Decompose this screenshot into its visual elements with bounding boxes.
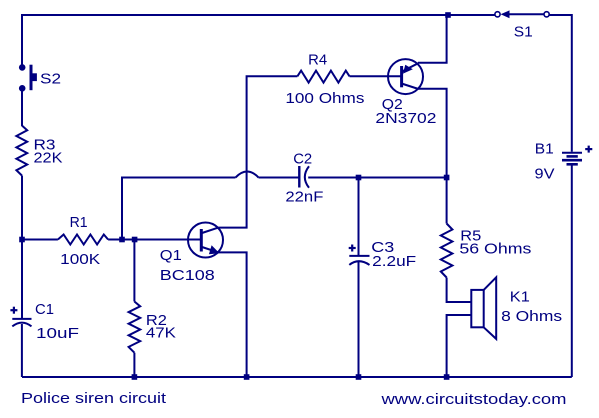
resistor R1 bbox=[22, 235, 122, 245]
wire battery to bottom rail bbox=[571, 165, 573, 377]
wire speaker bottom terminal to ground bbox=[447, 315, 472, 377]
wire S1 to battery bbox=[549, 15, 572, 152]
node C3 top junction bbox=[356, 175, 362, 181]
wire R5 to speaker top terminal bbox=[447, 278, 472, 303]
node R5 line junction bbox=[444, 175, 450, 181]
svg-text:K1: K1 bbox=[510, 289, 530, 306]
svg-text:Q1: Q1 bbox=[160, 247, 182, 264]
svg-text:22K: 22K bbox=[34, 149, 63, 166]
wire Q2 emitter to top rail bbox=[418, 15, 447, 63]
wire Q1 emitter to ground bbox=[218, 252, 246, 377]
node R1 right junction bbox=[119, 237, 125, 243]
transistor Q2 bbox=[388, 59, 423, 94]
speaker K1 bbox=[471, 277, 496, 339]
plus sign C1 bbox=[10, 307, 17, 314]
capacitor C2 bbox=[299, 166, 309, 188]
wire top rail bbox=[22, 15, 495, 65]
svg-text:100 Ohms: 100 Ohms bbox=[285, 90, 364, 107]
wire left rail mid bbox=[21, 176, 23, 319]
plus sign C3 bbox=[349, 245, 356, 252]
wire base of Q1 bbox=[122, 239, 201, 241]
svg-text:R4: R4 bbox=[308, 51, 327, 68]
switch S2 bbox=[20, 65, 37, 91]
switch S1 bbox=[495, 10, 549, 18]
svg-text:R1: R1 bbox=[70, 214, 88, 231]
wire Q2 collector to R5 bbox=[419, 89, 447, 224]
svg-text:22nF: 22nF bbox=[285, 189, 323, 206]
wire feedback to C2 bbox=[122, 172, 299, 240]
capacitor C3 bbox=[349, 178, 369, 378]
battery B1 bbox=[562, 153, 582, 165]
resistor R3 bbox=[16, 126, 27, 176]
wire bottom rail bbox=[22, 376, 572, 378]
wire R2 bottom bbox=[133, 353, 135, 377]
svg-text:100K: 100K bbox=[60, 251, 100, 268]
node R2 ground junction bbox=[132, 374, 138, 380]
resistor R4 bbox=[297, 71, 349, 83]
node C3 ground junction bbox=[356, 374, 362, 380]
svg-text:10uF: 10uF bbox=[36, 325, 79, 342]
wire Q1 collector to R4 bbox=[218, 76, 297, 227]
svg-text:9V: 9V bbox=[535, 166, 555, 183]
svg-text:www.circuitstoday.com: www.circuitstoday.com bbox=[380, 391, 566, 408]
node top junction bbox=[445, 12, 451, 18]
svg-text:C2: C2 bbox=[293, 151, 312, 168]
node speaker ground junction bbox=[444, 374, 450, 380]
wire R4 to Q2 base bbox=[350, 75, 402, 77]
resistor R5 bbox=[441, 224, 453, 278]
plus sign B1 bbox=[585, 146, 592, 153]
svg-text:8 Ohms: 8 Ohms bbox=[501, 308, 562, 325]
svg-text:56 Ohms: 56 Ohms bbox=[459, 241, 531, 258]
svg-text:S2: S2 bbox=[40, 70, 61, 87]
svg-text:2.2uF: 2.2uF bbox=[372, 253, 416, 270]
svg-text:Police siren circuit: Police siren circuit bbox=[21, 390, 167, 407]
svg-text:2N3702: 2N3702 bbox=[375, 110, 436, 127]
node R1 left junction bbox=[19, 237, 25, 243]
node base junction bbox=[132, 237, 138, 243]
svg-text:BC108: BC108 bbox=[160, 267, 215, 284]
svg-text:47K: 47K bbox=[146, 325, 176, 342]
capacitor C1 bbox=[12, 319, 31, 377]
node Q1 emitter ground junction bbox=[244, 374, 250, 380]
svg-text:C1: C1 bbox=[35, 301, 54, 318]
svg-text:B1: B1 bbox=[535, 141, 554, 158]
svg-text:S1: S1 bbox=[514, 24, 533, 41]
wire C2 to R5 line bbox=[308, 177, 446, 179]
resistor R2 bbox=[129, 302, 141, 353]
transistor Q1 bbox=[188, 223, 223, 258]
wire R2 top bbox=[133, 240, 135, 302]
